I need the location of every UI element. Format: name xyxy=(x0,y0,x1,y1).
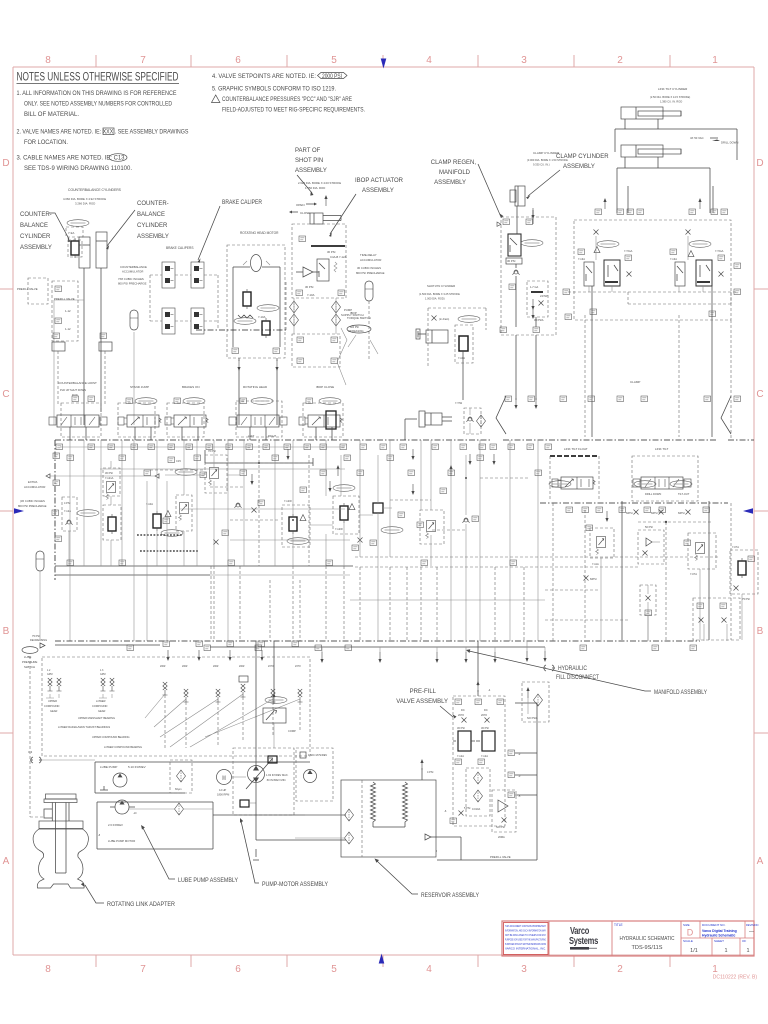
big dashed enclosure xyxy=(574,220,731,320)
check valve xyxy=(513,270,520,275)
svg-text:A: A xyxy=(3,856,10,867)
svg-text:1/1: 1/1 xyxy=(690,948,698,954)
svg-text:COUNTERBALANCE CYLINDERS: COUNTERBALANCE CYLINDERS xyxy=(68,188,122,192)
svg-text:7-10A: 7-10A xyxy=(258,315,266,319)
strainer xyxy=(100,786,108,790)
svg-text:5.10 IN³/REV: 5.10 IN³/REV xyxy=(128,765,146,769)
up arrow xyxy=(324,195,327,206)
svg-text:30 CUBIC INCHES: 30 CUBIC INCHES xyxy=(357,266,381,270)
svg-text:ACCUMULATOR: ACCUMULATOR xyxy=(122,270,143,274)
zone tick marks top/bottom xyxy=(96,55,670,967)
connector lines inside cluster box xyxy=(589,236,703,292)
svg-text:UPPER COMPOUND BEARING: UPPER COMPOUND BEARING xyxy=(92,735,129,739)
top arrow xyxy=(476,681,479,692)
arrows xyxy=(605,511,608,522)
caliper connect wires xyxy=(150,275,218,321)
svg-text:ASSEMBLY: ASSEMBLY xyxy=(434,180,466,186)
svg-text:5: 5 xyxy=(331,964,337,975)
svg-text:5: 5 xyxy=(331,55,337,66)
svg-text:BALANCE: BALANCE xyxy=(20,223,48,229)
cluster c with heavy xyxy=(333,496,359,534)
svg-text:ONLY. SEE NOTED ASSEMBLY NUMBE: ONLY. SEE NOTED ASSEMBLY NUMBERS FOR CON… xyxy=(24,102,173,108)
svg-text:2.6 IN³/REV: 2.6 IN³/REV xyxy=(108,823,123,827)
svg-text:7: 7 xyxy=(140,55,146,66)
svg-text:HYDRAULIC SCHEMATIC: HYDRAULIC SCHEMATIC xyxy=(620,936,675,942)
svg-text:ROTATING HEAD: ROTATING HEAD xyxy=(243,385,268,389)
svg-text:-8: -8 xyxy=(98,834,101,837)
svg-text:CLAMP REGEN,: CLAMP REGEN, xyxy=(431,160,477,166)
svg-text:200#: 200# xyxy=(239,665,245,668)
heavy dash-dot manifold bus xyxy=(55,439,492,441)
filter box xyxy=(170,760,192,793)
svg-text:800 PSI PRECHARGE: 800 PSI PRECHARGE xyxy=(356,271,385,275)
filters sub-box xyxy=(466,768,490,816)
svg-text:207#: 207# xyxy=(458,713,464,717)
svg-text:3. CABLE NAMES ARE NOTED. IE:: 3. CABLE NAMES ARE NOTED. IE: C13 xyxy=(17,156,126,162)
svg-text:7-10A: 7-10A xyxy=(458,356,465,360)
svg-text:Varco Digital Training: Varco Digital Training xyxy=(702,929,737,933)
junction dots xyxy=(258,462,260,464)
callout counter-balance cylinder assembly (left) xyxy=(20,212,52,251)
connecting verticals xyxy=(214,440,431,566)
svg-text:IBOP ACTUATOR: IBOP ACTUATOR xyxy=(355,178,404,184)
svg-text:PURPOSE NOR USED FOR THE MANUF: PURPOSE NOR USED FOR THE MANUFACTURING xyxy=(505,938,546,942)
risers from mid to bus xyxy=(211,566,300,641)
leader xyxy=(330,194,356,234)
dashed enclosure xyxy=(42,657,310,756)
svg-text:C: C xyxy=(756,389,763,400)
second pump motor group box xyxy=(97,802,213,849)
dash tie into shot pin xyxy=(196,329,286,331)
svg-text:.50 IN³/REV MIN.: .50 IN³/REV MIN. xyxy=(266,778,286,782)
wires from cylinder xyxy=(517,206,533,234)
callout counter-balance cylinder assembly (mid) xyxy=(137,201,169,240)
svg-text:FOR LOCATION.: FOR LOCATION. xyxy=(24,140,68,146)
dashed enclosure xyxy=(453,696,505,826)
svg-text:75 PSI: 75 PSI xyxy=(742,597,750,601)
svg-text:7X8 CUBIC INCHES: 7X8 CUBIC INCHES xyxy=(118,277,144,281)
svg-text:30 PSI: 30 PSI xyxy=(327,250,336,254)
svg-text:60PSI: 60PSI xyxy=(678,512,685,515)
svg-text:NO PSIA: NO PSIA xyxy=(527,716,538,720)
dashed risers center xyxy=(407,503,553,641)
heavy dashed top bar xyxy=(550,455,599,457)
svg-text:4. VALVE SETPOINTS ARE NOTED.: 4. VALVE SETPOINTS ARE NOTED. IE: xyxy=(212,74,316,80)
svg-text:600 PSI: 600 PSI xyxy=(350,326,359,329)
small valve box xyxy=(317,259,329,281)
svg-text:DECREASING: DECREASING xyxy=(30,638,47,642)
prefill dashed box left xyxy=(52,281,78,341)
caliper 1 xyxy=(162,262,175,288)
svg-text:2000 PSI: 2000 PSI xyxy=(322,74,342,80)
svg-text:-5: -5 xyxy=(518,794,521,798)
svg-text:RUN: RUN xyxy=(72,393,78,397)
valve cluster dashed box xyxy=(66,227,83,237)
coupling xyxy=(232,776,246,778)
svg-text:BRAKES ON: BRAKES ON xyxy=(182,385,200,389)
svg-text:INCREASING: INCREASING xyxy=(348,330,364,333)
right bottom cluster box xyxy=(693,598,740,640)
up arrows xyxy=(603,198,606,209)
svg-text:30 PSI: 30 PSI xyxy=(481,726,489,730)
svg-text:SIZE: SIZE xyxy=(683,923,690,927)
chevron break 1 xyxy=(496,396,506,434)
svg-text:30 PSIA: 30 PSIA xyxy=(534,318,544,322)
leader xyxy=(528,170,560,196)
svg-text:M: M xyxy=(222,776,225,782)
suction lines to reservoir xyxy=(256,783,346,840)
proprietary notice box xyxy=(504,923,549,955)
svg-text:DOCUMENT NO.: DOCUMENT NO. xyxy=(702,923,726,927)
svg-text:200#: 200# xyxy=(160,665,166,668)
orifice singles xyxy=(163,682,168,695)
svg-text:GPM: GPM xyxy=(100,673,105,676)
svg-text:Hydraulic Schematic: Hydraulic Schematic xyxy=(702,934,735,938)
svg-text:4: 4 xyxy=(426,964,432,975)
svg-text:2: 2 xyxy=(617,55,623,66)
svg-text:4X 50 VAC: 4X 50 VAC xyxy=(690,136,704,140)
svg-text:OPEN: OPEN xyxy=(296,203,305,207)
svg-text:CYLINDER: CYLINDER xyxy=(20,234,51,240)
svg-text:DC: DC xyxy=(461,708,465,712)
filters column right xyxy=(332,301,341,313)
vertical drops with arrows xyxy=(320,652,323,663)
caliper 4 xyxy=(191,308,204,334)
note6 warning triangle xyxy=(212,95,220,103)
svg-text:30 PSI: 30 PSI xyxy=(105,471,113,475)
svg-text:SHOT-PIN CYLINDER: SHOT-PIN CYLINDER xyxy=(427,284,455,288)
compensator valve above xyxy=(265,697,287,704)
svg-text:NOT BE DISCLOSED TO OTHERS FOR: NOT BE DISCLOSED TO OTHERS FOR ANY xyxy=(505,933,546,937)
svg-text:1 MIC M³/S/REV: 1 MIC M³/S/REV xyxy=(308,753,327,757)
zone numbers bottom xyxy=(45,964,718,975)
caliper 3 xyxy=(162,308,175,334)
svg-text:60PSI: 60PSI xyxy=(626,512,633,515)
svg-text:LUBE PUMP: LUBE PUMP xyxy=(100,765,117,769)
heavy cartridge xyxy=(243,289,251,309)
svg-text:VALVE ASSEMBLY: VALVE ASSEMBLY xyxy=(396,699,448,705)
label square row xyxy=(595,209,602,215)
arrow diamonds xyxy=(46,474,50,478)
svg-text:INFORMATION, AND SUCH INFORMAT: INFORMATION, AND SUCH INFORMATION MAY xyxy=(505,929,546,933)
cluster r2 xyxy=(638,530,664,564)
heavy cartridge mid xyxy=(153,511,161,531)
svg-text:SEE TDS-9 WIRING DRAWING 1101: SEE TDS-9 WIRING DRAWING 110100. xyxy=(24,166,132,172)
left dash-dot riser xyxy=(54,440,56,580)
svg-text:TIME-DELAY: TIME-DELAY xyxy=(360,253,377,257)
svg-text:ACCUMULATOR: ACCUMULATOR xyxy=(24,485,45,489)
svg-text:D: D xyxy=(756,158,763,169)
clamp cylinder symbol xyxy=(510,190,516,202)
cylinder 2 xyxy=(96,232,107,268)
svg-text:1.2: 1.2 xyxy=(47,669,51,672)
svg-text:6: 6 xyxy=(235,964,241,975)
svg-text:DC110222 (REV. B): DC110222 (REV. B) xyxy=(713,975,758,981)
svg-text:-10: -10 xyxy=(133,812,137,815)
svg-text:-3: -3 xyxy=(518,774,521,778)
gray horizontal link line xyxy=(568,291,736,293)
accumulator xyxy=(36,551,44,571)
svg-text:7-13A: 7-13A xyxy=(578,257,585,261)
svg-text:7: 7 xyxy=(140,964,146,975)
valve cluster oval label C081 xyxy=(67,220,89,227)
filter diamond 2 xyxy=(175,803,184,815)
svg-text:7-12W: 7-12W xyxy=(284,499,292,503)
lower label squares xyxy=(565,314,572,320)
tilt valve enclosure xyxy=(632,456,698,501)
suction strainer zigzag 2 xyxy=(403,782,408,827)
svg-text:BRAKE CALIPER: BRAKE CALIPER xyxy=(222,200,263,206)
below-bus arrows xyxy=(286,449,289,460)
svg-text:1: 1 xyxy=(712,964,718,975)
svg-text:1: 1 xyxy=(724,948,727,954)
svg-text:LINK TILT CYLINDER: LINK TILT CYLINDER xyxy=(658,87,688,91)
cluster 2 xyxy=(686,230,691,235)
svg-text:3: 3 xyxy=(521,964,527,975)
pressure reducing cluster xyxy=(103,505,121,540)
svg-text:30 PSI: 30 PSI xyxy=(305,285,314,289)
svg-text:30 PSI: 30 PSI xyxy=(507,259,516,263)
prefill valve triangle xyxy=(492,790,516,832)
svg-text:PUMP-MOTOR ASSEMBLY: PUMP-MOTOR ASSEMBLY xyxy=(262,882,328,888)
pump supply switch xyxy=(341,308,364,317)
svg-text:12 HP: 12 HP xyxy=(219,788,226,792)
svg-text:EXTRA: EXTRA xyxy=(28,480,37,484)
svg-text:-4: -4 xyxy=(488,688,491,692)
bottom label squares xyxy=(232,348,239,354)
x psi marks xyxy=(584,576,589,581)
svg-text:2: 2 xyxy=(617,964,623,975)
svg-text:1. ALL INFORMATION ON THIS DRA: 1. ALL INFORMATION ON THIS DRAWING IS FO… xyxy=(17,91,177,97)
cylinder horizontal xyxy=(426,330,448,343)
svg-text:C4A-B 7-12A: C4A-B 7-12A xyxy=(330,255,347,259)
svg-text:8: 8 xyxy=(45,55,51,66)
svg-text:75 PSI: 75 PSI xyxy=(32,634,40,638)
svg-text:4: 4 xyxy=(426,55,432,66)
svg-text:GPM: GPM xyxy=(47,673,52,676)
valve 4 rotating head xyxy=(229,415,287,427)
dashed enclosure xyxy=(233,748,294,815)
small box column left xyxy=(62,497,77,531)
manifold outline upper xyxy=(615,129,737,160)
blue zone marker right xyxy=(743,508,753,514)
svg-text:1.000 DIA. ROD): 1.000 DIA. ROD) xyxy=(425,297,445,301)
valve 2 stand jump xyxy=(118,415,161,427)
cartridge valve xyxy=(71,238,79,258)
svg-text:20MA: 20MA xyxy=(498,835,505,839)
float valve xyxy=(552,477,595,489)
long horizontal xyxy=(55,565,353,567)
electric motor M xyxy=(217,770,232,785)
svg-text:TDS-9S/11S: TDS-9S/11S xyxy=(632,945,663,951)
left port diamonds xyxy=(345,809,354,821)
accumulator xyxy=(130,310,138,330)
svg-text:COUNTER-: COUNTER- xyxy=(20,212,52,218)
mid flange xyxy=(39,821,83,829)
stem columns xyxy=(52,803,69,874)
svg-text:BRAKE CALIPERS: BRAKE CALIPERS xyxy=(166,246,193,250)
svg-text:TORQUE SWITCH: TORQUE SWITCH xyxy=(347,316,371,320)
svg-text:—: — xyxy=(749,929,754,935)
filters column left xyxy=(290,301,299,313)
valve 3 brakes on xyxy=(165,415,208,427)
svg-text:RIGHT: RIGHT xyxy=(268,434,276,438)
svg-text:TILT-OUT: TILT-OUT xyxy=(678,492,690,496)
svg-text:LINK TILT: LINK TILT xyxy=(655,447,669,451)
svg-text:(in drain): (in drain) xyxy=(439,317,449,321)
svg-text:1800 RPM: 1800 RPM xyxy=(217,793,229,797)
svg-text:CLOSE: CLOSE xyxy=(300,211,310,215)
svg-text:(2.50 DIA. BORE X 14.5 STROKE): (2.50 DIA. BORE X 14.5 STROKE) xyxy=(650,95,690,99)
pump circle xyxy=(113,773,127,787)
svg-text:THIS DOCUMENT CONTAINS PROPRIE: THIS DOCUMENT CONTAINS PROPRIETARY xyxy=(505,924,546,928)
svg-text:7-T/W: 7-T/W xyxy=(455,401,463,405)
X bleed + drain text xyxy=(432,316,437,321)
cluster e xyxy=(420,510,444,544)
svg-text:LOWER COMPOUND BEARING: LOWER COMPOUND BEARING xyxy=(104,745,142,749)
valve 5 ibop close xyxy=(299,415,342,427)
extra accumulator text xyxy=(18,480,47,508)
flow headers xyxy=(160,665,301,668)
svg-text:7-07A: 7-07A xyxy=(690,572,697,576)
svg-text:MANIFOLD ASSEMBLY: MANIFOLD ASSEMBLY xyxy=(654,690,707,696)
svg-text:0.010A: 0.010A xyxy=(472,807,480,811)
dotted ties xyxy=(355,557,720,567)
svg-text:7-T/GA: 7-T/GA xyxy=(624,249,633,253)
long drops to valve clusters xyxy=(617,119,710,213)
svg-text:STAND JUMP: STAND JUMP xyxy=(130,385,149,389)
pressure line up xyxy=(273,641,275,695)
svg-text:7-13A: 7-13A xyxy=(670,257,677,261)
svg-text:1.3: 1.3 xyxy=(100,669,104,672)
lube pump motor circle xyxy=(115,800,129,814)
svg-text:SHEET: SHEET xyxy=(714,939,724,943)
svg-text:1.93 IN³/REV MAX.: 1.93 IN³/REV MAX. xyxy=(266,773,289,777)
svg-text:9.330 CU. IN.): 9.330 CU. IN.) xyxy=(533,163,550,167)
cylinder 2 wires / lower outline xyxy=(615,152,710,186)
wires below to valve bank xyxy=(516,286,536,400)
zone letters xyxy=(2,158,763,867)
svg-text:COUNTERBALANCE HOIST: COUNTERBALANCE HOIST xyxy=(58,381,97,385)
cable wiggle xyxy=(337,328,347,385)
callout part of shot pin assembly xyxy=(295,148,327,174)
rect mark xyxy=(239,676,248,682)
reservoir right port line riser xyxy=(437,859,461,861)
cluster r4 vertical valve xyxy=(640,585,656,615)
svg-text:PART OF: PART OF xyxy=(295,148,321,154)
funnels under orifices xyxy=(46,694,112,698)
extra mid-band tie lines xyxy=(150,463,530,530)
svg-text:D: D xyxy=(687,928,694,938)
inner bottom box xyxy=(54,873,67,884)
X psi marks xyxy=(634,510,639,515)
wires bank to bus xyxy=(70,427,332,440)
ibop cylinder xyxy=(310,213,323,224)
svg-text:LINK TILT FLOAT: LINK TILT FLOAT xyxy=(564,447,588,451)
svg-text:C-3: C-3 xyxy=(28,750,33,754)
oval 700 psi xyxy=(234,318,256,325)
main pump xyxy=(248,766,265,783)
svg-text:CLAMP: CLAMP xyxy=(630,380,640,384)
bearing labels xyxy=(44,699,142,749)
cluster r3 xyxy=(688,533,716,569)
svg-text:PREFILL VALVE: PREFILL VALVE xyxy=(17,287,38,291)
scattered label squares xyxy=(240,470,247,476)
svg-text:60PSI: 60PSI xyxy=(590,578,597,581)
svg-text:BALANCE: BALANCE xyxy=(137,212,165,218)
blue zone marker left xyxy=(14,508,24,514)
svg-text:800 PSI PRECHARGE: 800 PSI PRECHARGE xyxy=(18,504,47,508)
dashed drop to link adapter xyxy=(30,656,44,817)
callout clamp regen manifold assembly xyxy=(431,160,477,186)
svg-text:ROTATING LINK ADAPTER: ROTATING LINK ADAPTER xyxy=(107,902,176,908)
caliper 2 xyxy=(191,262,204,288)
motor circle xyxy=(251,255,262,272)
leader xyxy=(107,210,135,246)
svg-text:3: 3 xyxy=(521,55,527,66)
heavy bus below xyxy=(540,502,728,504)
svg-text:PRE-FILL: PRE-FILL xyxy=(410,689,437,695)
svg-text:LUBE: LUBE xyxy=(24,655,31,659)
oval 2000psi xyxy=(77,510,99,517)
svg-text:COUNTERBALANCE: COUNTERBALANCE xyxy=(120,265,147,269)
callout xyxy=(396,689,448,705)
svg-text:7-12W: 7-12W xyxy=(335,527,343,531)
svg-text:DRILL DOWN: DRILL DOWN xyxy=(645,492,661,496)
inner dashed sub-block xyxy=(527,281,548,317)
callout ibop actuator assembly xyxy=(355,178,404,194)
cylinder 2 xyxy=(621,145,663,157)
left cluster: lube pressure switch xyxy=(40,643,45,648)
prefill feed riser xyxy=(477,641,479,686)
top line with squares xyxy=(55,644,160,646)
accumulator capsule xyxy=(365,281,373,301)
small box left margin xyxy=(28,278,48,304)
spring xyxy=(334,262,337,272)
svg-text:DRILL DOWN: DRILL DOWN xyxy=(721,141,738,145)
svg-text:ASSEMBLY: ASSEMBLY xyxy=(137,234,169,240)
svg-text:REVISION: REVISION xyxy=(746,923,759,927)
valve sub dashed xyxy=(455,325,473,363)
compensator piston heavy xyxy=(268,756,277,763)
svg-text:(36 CUBIC INCHES: (36 CUBIC INCHES xyxy=(20,499,45,503)
svg-text:7-11A: 7-11A xyxy=(592,562,599,566)
svg-text:4.060 DIA. BORE X 4.92 STROKE: 4.060 DIA. BORE X 4.92 STROKE xyxy=(63,197,106,201)
relief with spring right xyxy=(176,495,192,531)
orifice drop dashes xyxy=(165,695,300,750)
svg-text:2.625 DIA. BORE X 4.00 STROKE: 2.625 DIA. BORE X 4.00 STROKE xyxy=(298,181,341,185)
svg-text:VARCO INTERNATIONAL, INC.: VARCO INTERNATIONAL, INC. xyxy=(505,947,546,951)
svg-text:1,380 CU. IN. ROD: 1,380 CU. IN. ROD xyxy=(660,100,682,104)
svg-text:IBOP CLOSE: IBOP CLOSE xyxy=(316,385,334,389)
wires right xyxy=(461,703,537,860)
svg-text:30 PSI: 30 PSI xyxy=(457,726,465,730)
svg-text:7-07A: 7-07A xyxy=(732,545,739,549)
label squares above bus right side xyxy=(505,396,512,402)
heavy drain component xyxy=(240,800,249,807)
svg-text:LOWER RADIAL/MAIN THRUST BEARI: LOWER RADIAL/MAIN THRUST BEARINGS xyxy=(58,725,110,729)
secondary dashed link xyxy=(628,292,731,304)
outer box xyxy=(95,762,310,793)
svg-text:7-12A: 7-12A xyxy=(481,754,488,758)
svg-text:LOWER: LOWER xyxy=(96,699,106,703)
svg-text:7-121A: 7-121A xyxy=(105,476,114,480)
leader xyxy=(49,213,69,239)
body profile xyxy=(33,829,88,888)
svg-text:7-12A: 7-12A xyxy=(457,754,464,758)
svg-text:2X7#: 2X7# xyxy=(295,665,301,668)
svg-text:3.266 DIA. ROD: 3.266 DIA. ROD xyxy=(75,202,95,206)
